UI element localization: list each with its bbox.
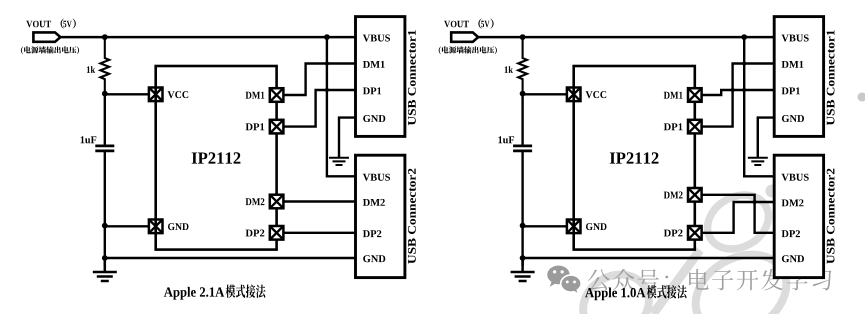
wire crossing bump 4: [742, 88, 746, 92]
label DM1 left: [246, 92, 265, 99]
label DM2 left: [246, 198, 265, 205]
label 1uF right: [498, 136, 514, 143]
connector2 left pin label DP2: [363, 230, 381, 237]
resistor 1k left: [100, 37, 109, 94]
wire crossing bump 2: [325, 88, 329, 92]
wire rail to capacitor right: [521, 94, 523, 146]
pin DP1 left: [270, 120, 284, 134]
capacitor 1uF left: [95, 146, 114, 151]
label fullwidth (5V) close paren right: [490, 19, 493, 29]
wire crossing bump 5: [731, 88, 735, 92]
wire VBUS rail left: [60, 36, 355, 39]
pin DP1 right: [688, 120, 702, 134]
VOUT power flag left: [33, 32, 60, 41]
junction rail-GNDpin left: [102, 223, 108, 229]
VOUT power flag right: [451, 32, 478, 41]
label VOUT left: [26, 21, 51, 28]
wire chip DM1 to connector1 DP1 right: [701, 90, 774, 95]
wire chip DP2 to connector2 DP2 left: [283, 232, 355, 234]
wire capacitor to ground right: [521, 151, 523, 266]
pin VCC left: [149, 88, 163, 102]
caption Apple 2.1A left: [164, 287, 224, 300]
pin GND left: [149, 220, 163, 234]
junction VBUS branch left: [324, 34, 330, 40]
resistor 1k right: [518, 37, 527, 94]
pin GND right: [567, 220, 581, 234]
wire to GND pin left: [105, 225, 150, 227]
capacitor 1uF right: [513, 146, 532, 151]
connector1 left body: [356, 17, 405, 137]
connector2 left pin label DM2: [363, 199, 385, 206]
junction rail-gndrail right: [520, 255, 526, 261]
connector1 right pin label DM1: [782, 61, 804, 68]
pin DP2 right: [688, 226, 702, 240]
connector1 left pin label GND: [363, 115, 385, 122]
label 5V right: [481, 21, 489, 28]
pin VCC right: [567, 88, 581, 102]
wire crossing bump 1: [325, 62, 329, 66]
wire to GND pin right: [523, 225, 568, 227]
ground symbol connector1 left: [329, 118, 349, 165]
wire connector1 GND down right: [758, 118, 774, 158]
wire rail to capacitor left: [104, 94, 106, 146]
wire crossing bump 6: [753, 200, 757, 204]
edge artifact: [858, 93, 865, 102]
wire chip DM1 to connector1 DM1 left: [283, 64, 355, 96]
wire crossing bump 3: [742, 62, 746, 66]
junction VOUT-resistor left: [102, 34, 108, 40]
caption mode-connection left: [226, 285, 266, 298]
pin DM1 left: [270, 88, 284, 102]
connector2 left side label: [408, 169, 416, 264]
wire ground rail right: [523, 257, 775, 259]
junction resistor-VCC right: [520, 91, 526, 97]
watermark WeChat icon: [547, 266, 581, 295]
ground symbol main right: [511, 258, 535, 281]
junction rail-gndrail left: [102, 255, 108, 261]
label power-wall-output-voltage note right: [439, 46, 497, 54]
label VOUT right: [444, 21, 469, 28]
wire ground rail left: [105, 257, 356, 259]
pin DM1 right: [688, 88, 702, 102]
ground symbol main left: [93, 258, 117, 281]
label DP1 left: [246, 123, 265, 130]
connector1 left pin label VBUS: [363, 35, 390, 42]
label fullwidth (5V) close paren left: [73, 19, 76, 29]
wire connector1 GND down left: [339, 118, 356, 158]
label DM2 right: [664, 192, 683, 199]
wire chip DM2 to connector2 DP2 right: [701, 195, 774, 233]
junction rail-GNDpin right: [520, 223, 526, 229]
label DM1 right: [664, 92, 683, 99]
pin DM2 right: [688, 188, 702, 202]
connector1 right side label: [827, 30, 835, 125]
pin DM2 left: [270, 195, 284, 209]
connector1 right pin label VBUS: [782, 35, 809, 42]
junction resistor-VCC left: [102, 91, 108, 97]
label DP2 left: [246, 230, 265, 237]
junction VBUS branch right: [741, 34, 747, 40]
label 1k left: [87, 66, 95, 73]
wire chip DP1 to connector1 DP1 left: [283, 90, 355, 127]
label 1uF left: [81, 136, 97, 143]
wire to VCC pin left: [105, 93, 150, 95]
wire chip DM2 to connector2 DM2 left: [283, 200, 355, 202]
caption mode-connection right: [647, 285, 687, 298]
label GND right: [586, 223, 607, 230]
wire chip DP1 to connector1 DM1 right: [701, 64, 774, 127]
connector1 right pin label GND: [782, 115, 804, 122]
connector2 right pin label VBUS: [782, 174, 809, 181]
connector1 left pin label DM1: [363, 61, 385, 68]
wire VBUS to connector2 VBUS left: [327, 37, 356, 176]
wire VBUS rail right: [478, 36, 774, 39]
label GND left: [168, 223, 189, 230]
connector2 right pin label DP2: [782, 230, 800, 237]
label IP2112 right: [610, 152, 659, 163]
label 5V left: [63, 21, 71, 28]
watermark logo arcs: [572, 184, 801, 314]
connector1 right pin label DP1: [782, 87, 800, 94]
IC IP2112 body right: [574, 66, 695, 250]
ground symbol connector1 right: [748, 118, 768, 165]
connector2 left body: [356, 155, 405, 277]
watermark text gongzhonghao: [588, 269, 832, 291]
wire capacitor to ground left: [104, 151, 106, 266]
label power-wall-output-voltage note left: [21, 46, 79, 54]
connector2 right side label: [827, 169, 835, 264]
connector2 right pin label DM2: [782, 199, 804, 206]
connector1 right body: [774, 17, 823, 137]
pin DP2 left: [270, 226, 284, 240]
connector2 right pin label GND: [782, 255, 804, 262]
connector2 right body: [774, 155, 823, 277]
connector1 left side label: [408, 30, 416, 125]
label IP2112 left: [192, 152, 241, 163]
junction VOUT-resistor right: [520, 34, 526, 40]
label VCC right: [586, 91, 607, 98]
label fullwidth (5V) open paren left: [61, 19, 64, 29]
label 1k right: [505, 66, 513, 73]
connector2 left pin label GND: [363, 255, 385, 262]
label fullwidth (5V) open paren right: [478, 19, 481, 29]
IC IP2112 body left: [156, 66, 277, 250]
connector2 left pin label VBUS: [363, 174, 390, 181]
label VCC left: [168, 91, 189, 98]
wire chip DP2 to connector2 DM2 right: [701, 202, 774, 233]
wire VBUS to connector2 VBUS right: [744, 37, 774, 176]
wire to VCC pin right: [523, 93, 568, 95]
label DP2 right: [664, 230, 683, 237]
connector1 left pin label DP1: [363, 87, 381, 94]
caption Apple 1.0A right: [585, 288, 645, 301]
label DP1 right: [664, 123, 683, 130]
